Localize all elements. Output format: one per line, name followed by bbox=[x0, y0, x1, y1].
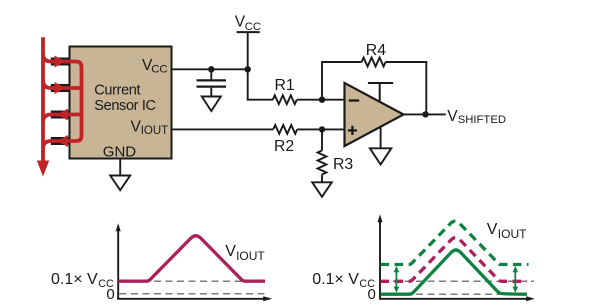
svg-text:R3: R3 bbox=[333, 156, 353, 173]
right graph dashed crimson curve bbox=[381, 238, 527, 282]
svg-text:R1: R1 bbox=[275, 77, 295, 94]
pin label GND bbox=[103, 144, 137, 161]
svg-text:0.1× V: 0.1× V bbox=[51, 271, 98, 288]
svg-text:SHIFTED: SHIFTED bbox=[458, 114, 506, 126]
wire VCC supply to node bbox=[247, 32, 249, 69]
resistor R3 bbox=[318, 151, 327, 175]
ground below R3 bbox=[312, 182, 332, 197]
current sensor IC U1 body bbox=[70, 47, 172, 159]
svg-text:R4: R4 bbox=[366, 42, 386, 59]
op-amp ground stem bbox=[380, 127, 382, 148]
feedback wire up to R4 bbox=[322, 62, 362, 100]
output node bbox=[422, 111, 428, 117]
pin terminal 4 bbox=[51, 137, 70, 145]
offset arrow left bbox=[394, 266, 400, 293]
wire node down to R3 bbox=[321, 129, 323, 150]
wire R3 to ground bbox=[321, 175, 323, 183]
svg-text:GND: GND bbox=[103, 144, 137, 161]
current loop turn 1 bbox=[43, 54, 82, 150]
left graph y axis bbox=[117, 230, 119, 299]
resistor R4 bbox=[362, 58, 386, 67]
right graph dashed level 0.1VCC bbox=[382, 280, 535, 282]
right graph dashed level 0 bbox=[382, 293, 525, 295]
svg-text:IOUT: IOUT bbox=[498, 227, 527, 241]
wire supply node down to R1 bbox=[248, 69, 273, 99]
ground below capacitor bbox=[202, 97, 221, 112]
resistor R2 bbox=[273, 125, 297, 134]
right graph x axis bbox=[379, 298, 527, 300]
op-amp supply bar bbox=[368, 83, 393, 102]
svg-text:V: V bbox=[447, 108, 458, 125]
svg-text:R2: R2 bbox=[274, 138, 294, 155]
current loop turn 3 bbox=[43, 115, 82, 123]
right graph label 0.1xVCC bbox=[312, 271, 375, 290]
svg-text:CC: CC bbox=[245, 21, 261, 33]
capacitor C1 bbox=[197, 69, 227, 96]
left graph dashed level 0 bbox=[120, 293, 265, 295]
svg-text:V: V bbox=[487, 221, 498, 238]
left graph label 0.1xVCC bbox=[51, 271, 114, 290]
IC name text bbox=[94, 83, 155, 114]
VSHIFTED label bbox=[447, 108, 506, 126]
current loop turn 2 bbox=[43, 80, 82, 88]
offset arrow right bbox=[513, 266, 519, 293]
plus sign bbox=[348, 126, 357, 135]
node non-inverting input bbox=[319, 126, 325, 132]
resistor R1 bbox=[273, 95, 297, 104]
left graph dashed level 0.1VCC bbox=[120, 280, 253, 282]
VCC supply label bbox=[235, 13, 261, 32]
op-amp U2 bbox=[345, 83, 404, 146]
svg-text:V: V bbox=[225, 243, 236, 260]
right graph solid green curve bbox=[381, 250, 527, 294]
left graph label VIOUT bbox=[225, 243, 265, 263]
pin terminal 1 bbox=[51, 58, 70, 66]
node inverting input bbox=[319, 97, 325, 103]
right graph dashed green curve bbox=[381, 221, 529, 264]
primary current wire vertical bbox=[41, 37, 45, 162]
svg-text:0.1× V: 0.1× V bbox=[312, 271, 359, 288]
svg-text:Current: Current bbox=[94, 83, 140, 99]
pin terminal 2 bbox=[51, 84, 70, 92]
current exit arrow down bbox=[37, 161, 49, 177]
svg-text:IOUT: IOUT bbox=[236, 249, 265, 263]
svg-text:0: 0 bbox=[106, 286, 114, 303]
left graph x axis bbox=[117, 298, 264, 300]
node at supply bbox=[245, 66, 251, 72]
pin terminal 3 bbox=[51, 111, 70, 119]
svg-text:CC: CC bbox=[151, 64, 167, 76]
wire R2 to non-inverting node bbox=[297, 128, 344, 130]
minus sign bbox=[349, 99, 360, 101]
svg-text:Sensor IC: Sensor IC bbox=[94, 98, 155, 114]
node at capacitor bbox=[208, 66, 214, 72]
right graph label VIOUT bbox=[487, 221, 527, 241]
GND pin wire bbox=[119, 159, 121, 176]
ground below op-amp bbox=[370, 148, 391, 164]
pin label VIOUT bbox=[131, 119, 169, 137]
svg-text:0: 0 bbox=[368, 286, 376, 303]
feedback wire to output bbox=[386, 62, 427, 114]
left graph VIOUT curve bbox=[118, 236, 265, 282]
current arrow into pin 1 bbox=[55, 56, 66, 68]
output wire bbox=[404, 113, 446, 115]
wire IC VIOUT pin to R2 bbox=[172, 128, 274, 130]
pin label VCC bbox=[142, 57, 168, 76]
svg-text:IOUT: IOUT bbox=[141, 125, 168, 137]
VCC supply bar bbox=[237, 31, 260, 33]
current arrow out of pin 3 bbox=[57, 109, 68, 121]
wire IC VCC pin to node bbox=[172, 68, 248, 70]
right graph y axis bbox=[379, 221, 381, 299]
ground below IC bbox=[110, 176, 130, 191]
current arrow out of pin 4 bbox=[57, 135, 68, 147]
wire R1 to inverting node bbox=[297, 99, 345, 101]
current arrow into pin 2 bbox=[55, 82, 66, 94]
